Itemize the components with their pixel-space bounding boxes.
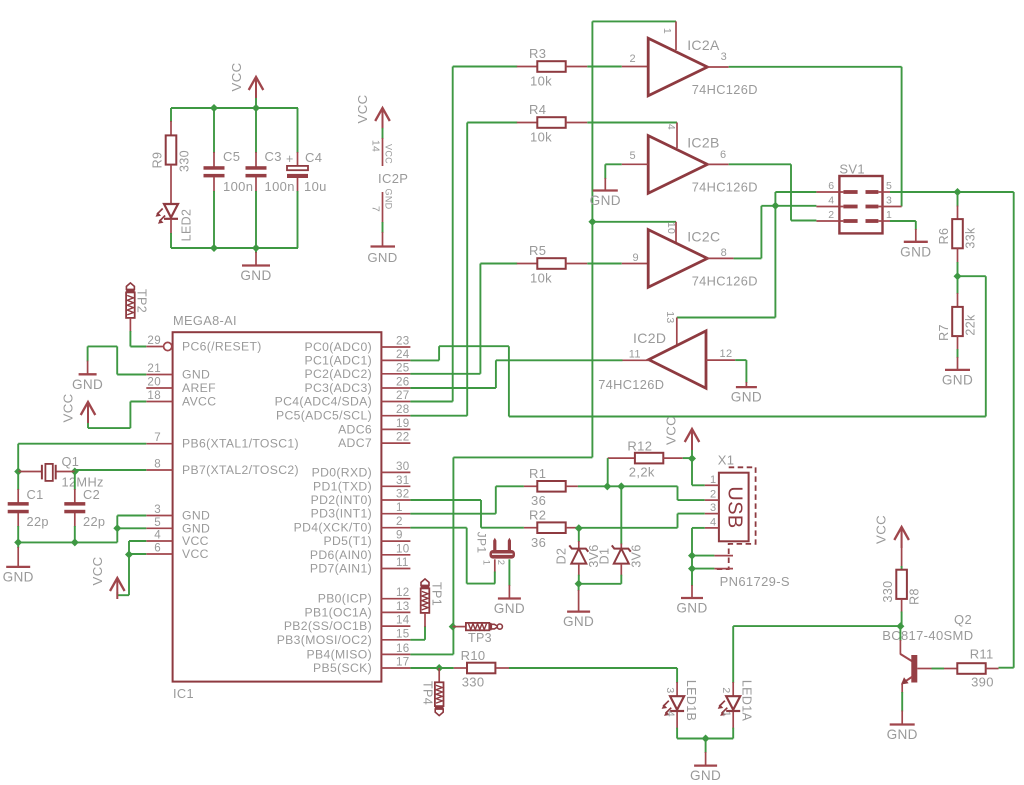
- svg-text:8: 8: [721, 247, 727, 259]
- svg-text:29: 29: [147, 334, 161, 347]
- svg-text:33k: 33k: [964, 227, 978, 249]
- svg-text:GND: GND: [494, 601, 525, 616]
- svg-text:22p: 22p: [83, 514, 105, 529]
- svg-text:PB3(MOSI/OC2): PB3(MOSI/OC2): [277, 633, 372, 647]
- svg-text:22: 22: [396, 431, 410, 444]
- svg-text:X1: X1: [718, 453, 735, 468]
- svg-text:PB0(ICP): PB0(ICP): [318, 592, 372, 606]
- svg-text:R4: R4: [529, 102, 546, 117]
- svg-text:R1: R1: [529, 466, 546, 481]
- svg-text:D1: D1: [598, 548, 612, 565]
- svg-text:4: 4: [665, 124, 677, 130]
- svg-text:IC1: IC1: [173, 686, 194, 701]
- svg-text:25: 25: [396, 361, 410, 374]
- svg-text:PD5(T1): PD5(T1): [324, 534, 373, 548]
- svg-text:3: 3: [664, 687, 676, 693]
- svg-text:10k: 10k: [530, 130, 552, 145]
- svg-text:5: 5: [886, 180, 892, 192]
- svg-text:PD0(RXD): PD0(RXD): [312, 465, 372, 479]
- svg-text:GND: GND: [900, 244, 931, 259]
- svg-text:AREF: AREF: [182, 381, 216, 395]
- svg-text:ADC6: ADC6: [338, 422, 372, 436]
- svg-text:VCC: VCC: [182, 547, 209, 561]
- svg-text:PC5(ADC5/SCL): PC5(ADC5/SCL): [276, 409, 372, 423]
- svg-text:GND: GND: [590, 193, 621, 208]
- svg-text:R6: R6: [937, 228, 951, 245]
- svg-text:C5: C5: [223, 149, 240, 164]
- svg-text:32: 32: [396, 488, 410, 501]
- svg-text:SV1: SV1: [839, 162, 865, 177]
- svg-text:4: 4: [828, 195, 834, 207]
- svg-text:VCC: VCC: [384, 144, 394, 164]
- svg-text:VCC: VCC: [229, 62, 244, 91]
- svg-text:1: 1: [886, 209, 892, 221]
- svg-text:15: 15: [396, 627, 410, 640]
- svg-text:TP3: TP3: [468, 631, 492, 645]
- svg-text:6: 6: [828, 180, 834, 192]
- svg-text:36: 36: [531, 535, 546, 550]
- svg-text:D2: D2: [555, 548, 569, 565]
- svg-text:9: 9: [396, 529, 403, 542]
- svg-text:27: 27: [396, 389, 410, 402]
- svg-text:R5: R5: [529, 243, 546, 258]
- svg-text:VCC: VCC: [355, 94, 370, 123]
- svg-text:2: 2: [710, 489, 716, 501]
- svg-text:PB1(OC1A): PB1(OC1A): [305, 605, 373, 619]
- svg-text:18: 18: [147, 389, 161, 402]
- svg-text:GND: GND: [72, 377, 103, 392]
- svg-text:26: 26: [396, 376, 410, 389]
- svg-text:GND: GND: [182, 368, 210, 382]
- svg-text:22p: 22p: [27, 514, 49, 529]
- svg-text:PC1(ADC1): PC1(ADC1): [305, 353, 373, 367]
- svg-text:13: 13: [396, 600, 410, 613]
- svg-text:2: 2: [630, 53, 636, 65]
- svg-text:PD2(INT0): PD2(INT0): [311, 493, 372, 507]
- svg-text:2: 2: [720, 687, 732, 693]
- svg-text:7: 7: [370, 206, 382, 212]
- svg-text:GND: GND: [942, 372, 973, 387]
- svg-text:GND: GND: [240, 268, 271, 283]
- svg-text:330: 330: [881, 581, 895, 603]
- svg-text:74HC126D: 74HC126D: [692, 82, 758, 97]
- svg-text:GND: GND: [563, 614, 594, 629]
- svg-text:390: 390: [971, 675, 994, 690]
- svg-text:17: 17: [396, 656, 410, 669]
- svg-text:R12: R12: [627, 439, 652, 454]
- svg-text:LED1A: LED1A: [740, 680, 754, 722]
- svg-text:TP4: TP4: [421, 681, 435, 705]
- svg-text:3V6: 3V6: [630, 544, 644, 567]
- svg-text:16: 16: [396, 642, 410, 655]
- svg-text:LED1B: LED1B: [684, 680, 698, 721]
- svg-text:3: 3: [154, 503, 161, 516]
- svg-text:14: 14: [370, 140, 382, 152]
- svg-text:VCC: VCC: [182, 534, 209, 548]
- svg-text:Q2: Q2: [954, 612, 972, 627]
- svg-text:6: 6: [720, 149, 726, 161]
- svg-text:24: 24: [396, 348, 410, 361]
- svg-text:10: 10: [665, 222, 677, 234]
- svg-text:PB2(SS/OC1B): PB2(SS/OC1B): [284, 619, 372, 633]
- svg-text:10k: 10k: [530, 74, 552, 89]
- svg-text:4: 4: [665, 711, 677, 717]
- svg-text:10: 10: [396, 542, 410, 555]
- svg-text:VCC: VCC: [874, 515, 889, 544]
- svg-text:PC4(ADC4/SDA): PC4(ADC4/SDA): [275, 395, 372, 409]
- svg-text:14: 14: [396, 614, 410, 627]
- svg-text:2: 2: [396, 515, 403, 528]
- svg-text:VCC: VCC: [90, 556, 105, 585]
- svg-text:PC6(/RESET): PC6(/RESET): [182, 340, 262, 354]
- svg-text:2: 2: [495, 560, 506, 566]
- svg-text:R3: R3: [529, 46, 546, 61]
- svg-text:5: 5: [630, 150, 636, 162]
- svg-text:1: 1: [481, 560, 492, 566]
- svg-text:GND: GND: [3, 569, 34, 584]
- svg-text:GND: GND: [384, 188, 394, 209]
- svg-text:BC817-40SMD: BC817-40SMD: [882, 628, 973, 643]
- svg-text:6: 6: [154, 542, 161, 555]
- svg-text:100n: 100n: [223, 179, 253, 194]
- svg-text:7: 7: [154, 431, 161, 444]
- svg-text:LED2: LED2: [180, 209, 194, 242]
- svg-text:IC2A: IC2A: [687, 37, 720, 53]
- svg-text:R9: R9: [151, 152, 165, 169]
- svg-text:20: 20: [147, 376, 161, 389]
- svg-text:1: 1: [720, 711, 732, 717]
- svg-text:R8: R8: [907, 588, 921, 605]
- svg-text:Q1: Q1: [62, 454, 80, 469]
- svg-text:74HC126D: 74HC126D: [692, 274, 758, 289]
- svg-text:9: 9: [633, 252, 639, 264]
- svg-text:MEGA8-AI: MEGA8-AI: [173, 313, 237, 328]
- svg-text:TP2: TP2: [135, 289, 149, 313]
- svg-text:JP1: JP1: [475, 532, 489, 554]
- svg-text:PD3(INT1): PD3(INT1): [311, 507, 372, 521]
- svg-text:2: 2: [828, 209, 834, 221]
- svg-text:R7: R7: [937, 324, 951, 341]
- svg-text:10k: 10k: [530, 271, 552, 286]
- svg-text:3: 3: [721, 51, 727, 63]
- svg-text:11: 11: [396, 556, 409, 569]
- svg-text:3: 3: [886, 195, 892, 207]
- svg-text:GND: GND: [676, 601, 707, 616]
- svg-text:PN61729-S: PN61729-S: [720, 574, 790, 589]
- svg-text:C4: C4: [305, 150, 322, 165]
- svg-text:TP1: TP1: [430, 582, 444, 606]
- svg-text:GND: GND: [690, 768, 721, 783]
- svg-text:11: 11: [629, 349, 641, 361]
- svg-text:5: 5: [154, 516, 161, 529]
- svg-text:19: 19: [396, 417, 410, 430]
- svg-text:VCC: VCC: [61, 393, 76, 422]
- svg-text:GND: GND: [731, 390, 762, 405]
- svg-text:13: 13: [664, 311, 676, 323]
- svg-text:74HC126D: 74HC126D: [692, 180, 758, 195]
- svg-text:ADC7: ADC7: [338, 436, 372, 450]
- svg-text:12: 12: [720, 348, 733, 360]
- svg-text:C3: C3: [265, 149, 282, 164]
- svg-text:PD6(AIN0): PD6(AIN0): [310, 548, 372, 562]
- svg-text:R10: R10: [461, 648, 486, 663]
- svg-text:23: 23: [396, 335, 410, 348]
- svg-text:4: 4: [710, 516, 716, 528]
- svg-text:GND: GND: [887, 727, 918, 742]
- svg-text:PD7(AIN1): PD7(AIN1): [310, 562, 372, 576]
- svg-text:IC2B: IC2B: [687, 135, 720, 151]
- svg-text:8: 8: [154, 458, 161, 471]
- svg-text:330: 330: [462, 675, 485, 690]
- svg-text:PB7(XTAL2/TOSC2): PB7(XTAL2/TOSC2): [182, 463, 299, 477]
- svg-text:C1: C1: [27, 487, 44, 502]
- svg-text:4: 4: [154, 529, 161, 542]
- svg-text:PC2(ADC2): PC2(ADC2): [305, 367, 373, 381]
- svg-text:12: 12: [396, 586, 410, 599]
- svg-text:30: 30: [396, 460, 410, 473]
- svg-text:100n: 100n: [265, 179, 295, 194]
- svg-text:2,2k: 2,2k: [629, 465, 655, 480]
- svg-text:GND: GND: [367, 250, 397, 265]
- svg-text:PB5(SCK): PB5(SCK): [313, 661, 372, 675]
- svg-text:USB: USB: [724, 486, 746, 528]
- svg-text:3: 3: [710, 502, 716, 514]
- svg-text:330: 330: [178, 150, 192, 172]
- svg-text:PB4(MISO): PB4(MISO): [307, 647, 372, 661]
- svg-text:22k: 22k: [964, 314, 978, 336]
- svg-text:1: 1: [396, 501, 403, 514]
- svg-text:PB6(XTAL1/TOSC1): PB6(XTAL1/TOSC1): [182, 437, 299, 451]
- svg-text:PD1(TXD): PD1(TXD): [313, 479, 372, 493]
- svg-text:+: +: [286, 152, 294, 166]
- svg-text:R11: R11: [970, 647, 994, 662]
- svg-text:21: 21: [147, 362, 161, 375]
- svg-text:PD4(XCK/T0): PD4(XCK/T0): [294, 521, 372, 535]
- svg-text:74HC126D: 74HC126D: [598, 377, 664, 392]
- svg-text:10u: 10u: [304, 179, 327, 194]
- svg-text:IC2C: IC2C: [687, 229, 720, 245]
- svg-text:1: 1: [710, 474, 716, 486]
- svg-text:IC2P: IC2P: [378, 171, 408, 186]
- svg-text:31: 31: [396, 474, 410, 487]
- svg-text:AVCC: AVCC: [182, 395, 216, 409]
- svg-text:PC0(ADC0): PC0(ADC0): [305, 340, 373, 354]
- svg-text:36: 36: [531, 493, 546, 508]
- svg-text:1: 1: [661, 28, 673, 34]
- svg-text:IC2D: IC2D: [633, 330, 666, 346]
- svg-text:C2: C2: [83, 487, 100, 502]
- svg-text:VCC: VCC: [664, 416, 679, 445]
- svg-text:R2: R2: [529, 508, 546, 523]
- svg-text:PC3(ADC3): PC3(ADC3): [305, 381, 373, 395]
- svg-text:28: 28: [396, 403, 410, 416]
